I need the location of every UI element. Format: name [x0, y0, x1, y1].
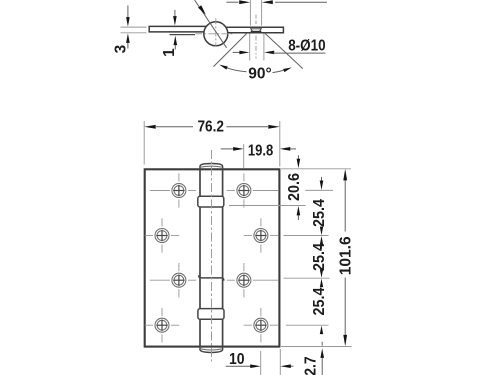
svg-text:101.6: 101.6 — [337, 236, 354, 275]
dim 90deg: left 45deg line — [214, 33, 248, 67]
dim 101.6: dimension line with arrows — [344, 180, 346, 232]
dim top cut-off: left arrow — [226, 1, 238, 3]
dim 25.4 first: upper arrow stub — [321, 177, 323, 182]
right chain: hole row 1 tick line — [305, 189, 333, 191]
svg-text:8-Ø10: 8-Ø10 — [288, 38, 325, 55]
front view: hinge plate outline — [145, 169, 280, 346]
dim 3: upper arrow stub — [127, 6, 129, 19]
dim 3: lower arrow stub — [127, 42, 129, 49]
front view: middle knuckle joint line — [199, 275, 224, 280]
svg-text:25.4: 25.4 — [311, 243, 328, 271]
side view: barrel knuckle circle — [204, 22, 228, 46]
screw hole 1 (top left) — [150, 173, 196, 207]
dim 2.7: lower arrow stub — [321, 357, 323, 375]
svg-text:25.4: 25.4 — [311, 199, 328, 227]
dim 90deg: right countersink extension line — [263, 34, 265, 61]
svg-text:19.8: 19.8 — [248, 142, 274, 159]
side view: countersunk hole right wall — [259, 28, 261, 32]
dim 90deg: left horizontal arrow — [233, 51, 240, 53]
side view: barrel horizontal centerline — [195, 33, 233, 35]
dim 90deg: right horizontal arrow — [264, 51, 274, 55]
side view: barrel vertical centerline — [215, 18, 217, 46]
dim 10: left extension line (hole column) — [260, 351, 262, 375]
dim 20.6: lower arrow stub — [297, 214, 299, 220]
dim 19.8: right outside arrow — [291, 148, 297, 150]
dim 20.6: upper arrow stub — [297, 155, 299, 160]
side view: countersunk hole left wall — [250, 28, 252, 32]
svg-text:76.2: 76.2 — [197, 119, 224, 136]
right chain: hole row 4 tick line — [286, 324, 329, 326]
front view: bearing ring 2 — [198, 309, 224, 320]
svg-text:2.7: 2.7 — [303, 356, 320, 375]
dim 25.4 first: lower arrow stub — [321, 244, 323, 249]
dim 90deg: left countersink extension line — [249, 34, 251, 61]
screw hole 5 (lower left) — [150, 263, 196, 297]
dim 90deg: right arc with arrow — [273, 70, 287, 73]
svg-text:3: 3 — [112, 44, 129, 53]
dim 25.4 second: upper arrow stub — [320, 227, 323, 236]
right chain: hole row 3 tick line — [284, 277, 330, 279]
side view: pin leader line through barrel — [195, 0, 227, 48]
dim top cut-off: right extension line — [261, 0, 263, 26]
front view: barrel right side line — [222, 169, 224, 346]
dim 25.4 third: lower arrow stub — [320, 326, 323, 335]
side view: hole centerline below leaf — [255, 36, 257, 59]
svg-text:10: 10 — [229, 351, 245, 368]
svg-text:90°: 90° — [248, 65, 271, 82]
dim 76.2: right extension line (shared with 19.8) — [279, 121, 281, 167]
dim 90deg: right 45deg line — [265, 33, 303, 69]
front view: barrel top cap — [200, 163, 223, 169]
dim 10: right extension line (hinge edge) — [279, 349, 281, 375]
dim 76.2: dimension line with arrows — [156, 126, 193, 128]
svg-text:1: 1 — [161, 48, 178, 57]
label 8-O10 leader underline — [273, 52, 326, 54]
right chain: hinge top edge extension line — [281, 168, 351, 170]
dim 25.4 third: upper arrow stub — [320, 269, 323, 278]
side view: countersunk hole pilot line — [251, 28, 261, 30]
svg-text:20.6: 20.6 — [286, 173, 303, 201]
dim 1: lower arrow stub — [174, 45, 176, 50]
side view: pin leader arrowhead — [198, 5, 206, 15]
dim 1: upper arrow stub — [174, 10, 176, 17]
side view: second leaf underside line — [170, 34, 196, 36]
side view: right leaf (section) — [225, 27, 284, 33]
screw hole 3 (upper outer left) — [145, 218, 179, 252]
right chain: bearing ring top extension line — [229, 205, 306, 207]
side view: countersunk hole bottom line — [251, 31, 262, 33]
dim top cut-off: right arrow with long tail — [275, 1, 327, 3]
front view: barrel vertical centerline — [211, 150, 213, 362]
dim 2.7: faint upper stub — [321, 342, 323, 346]
screw hole 2 (top right) — [227, 173, 279, 207]
dim 10: left outside arrow — [226, 365, 251, 367]
front view: barrel top cap inner line — [201, 165, 222, 168]
dim 19.8: left extension line (hole column) — [243, 144, 245, 169]
dim top cut-off: left extension line — [249, 0, 251, 26]
dim 3: lower extension line — [121, 32, 147, 34]
right chain: hole row 2 tick line — [284, 235, 329, 237]
side view: hole centerline above leaf — [255, 15, 257, 25]
front view: barrel bottom cap — [200, 346, 223, 352]
screw hole 6 (lower right) — [227, 263, 279, 297]
dim 25.4 second: lower arrow stub — [320, 279, 323, 288]
dim 90deg: left arc with arrow — [225, 67, 247, 72]
side view: left leaf (section) — [149, 26, 207, 32]
svg-text:25.4: 25.4 — [311, 287, 328, 315]
screw hole 7 (bottom outer left) — [145, 308, 179, 342]
dim 76.2: left extension line — [143, 121, 145, 165]
front view: bearing ring 1 — [198, 196, 224, 207]
right chain: hinge bottom edge extension line — [281, 346, 352, 348]
dim 3: upper extension line — [121, 26, 147, 28]
dim 19.8: left outside arrow — [221, 148, 234, 150]
front view: barrel bottom cap inner arc — [201, 349, 222, 350]
front view: barrel left side line — [199, 169, 201, 346]
screw hole 4 (upper outer right) — [244, 218, 278, 252]
dim 10: right outside arrow — [291, 365, 294, 367]
screw hole 8 (bottom outer right) — [244, 308, 278, 342]
